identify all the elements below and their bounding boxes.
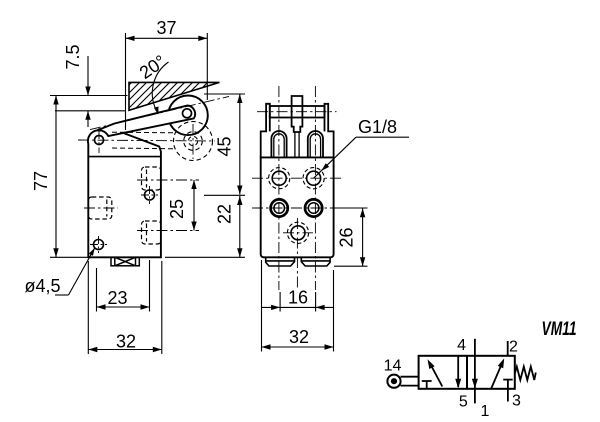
side ports front view	[271, 199, 323, 216]
label diameter 4,5	[24, 248, 94, 296]
svg-text:VM11: VM11	[542, 319, 577, 340]
valve body side view	[88, 130, 161, 257]
symbol port 1 line	[472, 339, 478, 404]
svg-text:22: 22	[215, 204, 235, 224]
symbol left square flow arrow	[428, 359, 443, 386]
symbol port 2 line	[507, 341, 509, 356]
plunger front	[292, 96, 303, 157]
svg-text:ø4,5: ø4,5	[24, 276, 60, 296]
lever arm	[98, 106, 196, 137]
roller	[168, 96, 208, 136]
svg-text:23: 23	[107, 288, 127, 308]
dimension 32 left view	[88, 261, 162, 354]
svg-text:2: 2	[509, 339, 518, 356]
dimension 37	[126, 18, 208, 130]
hidden port bosses left view	[84, 167, 199, 244]
svg-text:7.5: 7.5	[63, 44, 83, 69]
dimension 25	[167, 180, 197, 231]
feet front view	[266, 257, 330, 266]
svg-text:16: 16	[288, 288, 308, 308]
angle 20 deg	[136, 51, 170, 115]
front bracket collar	[261, 104, 334, 158]
valve symbol boxes	[419, 356, 515, 389]
svg-text:25: 25	[167, 199, 187, 219]
svg-text:32: 32	[289, 327, 309, 347]
svg-text:45: 45	[215, 136, 235, 156]
svg-text:26: 26	[337, 227, 357, 247]
label G1/8	[314, 117, 409, 178]
valve body front view	[261, 157, 334, 257]
top ports front view	[269, 168, 325, 244]
svg-text:5: 5	[459, 394, 468, 411]
arch bumpers front	[271, 131, 323, 157]
lever pin and pivot pin	[95, 109, 192, 145]
symbol left square down passage 4-5	[455, 356, 461, 389]
pressed roller dashed	[174, 122, 213, 161]
svg-text:3: 3	[512, 393, 521, 410]
dimension 32 front view	[262, 260, 334, 352]
svg-text:G1/8: G1/8	[358, 117, 397, 137]
dimension 26	[334, 208, 368, 266]
symbol spring	[515, 367, 536, 380]
svg-text:37: 37	[156, 18, 176, 38]
symbol roller pilot 14	[387, 375, 418, 388]
pressed lever dashed edges	[112, 132, 174, 149]
side hole	[141, 186, 158, 204]
lever centerlines	[78, 96, 229, 159]
dimension 16	[261, 288, 333, 312]
svg-text:1: 1	[480, 403, 489, 420]
svg-text:14: 14	[384, 358, 402, 375]
symbol right square flow arrow 1-2	[491, 358, 504, 389]
hatched cam block	[94, 70, 258, 120]
symbol port 3 line	[507, 389, 509, 402]
dimension 77	[31, 96, 88, 258]
symbol left square blocked port T	[422, 381, 432, 389]
dimension 23	[97, 260, 150, 312]
roller axle bar front	[270, 106, 325, 118]
dimension 7.5	[50, 44, 128, 127]
symbol right square blocked port T	[503, 380, 513, 389]
front view centerlines	[252, 86, 341, 290]
svg-text:4: 4	[457, 337, 466, 354]
mounting hole o4.5	[90, 236, 107, 253]
dimension 45	[204, 94, 245, 195]
svg-text:77: 77	[31, 171, 51, 191]
svg-text:32: 32	[116, 332, 136, 352]
dimension 22	[165, 196, 245, 257]
bottom nipple	[111, 257, 139, 266]
